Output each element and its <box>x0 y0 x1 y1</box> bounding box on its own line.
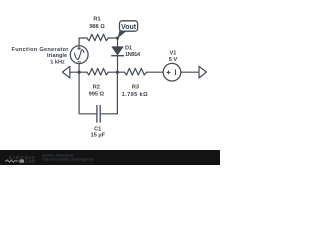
svg-text:15 µF: 15 µF <box>91 133 106 139</box>
diode D1 <box>111 47 124 56</box>
resistor R3 <box>124 68 146 75</box>
svg-text:triangle: triangle <box>47 53 67 59</box>
svg-text:D1: D1 <box>125 45 132 51</box>
function generator source <box>70 46 88 64</box>
junction node B <box>116 71 119 74</box>
wire C1 right plate up to node B <box>100 72 117 114</box>
svg-text:5 V: 5 V <box>169 57 178 63</box>
flag Vout <box>118 21 138 38</box>
junction node Vout <box>116 36 119 39</box>
wire function generator bottom to node A <box>78 63 80 72</box>
svg-text:V1: V1 <box>170 50 177 56</box>
capacitor C1 <box>97 105 100 123</box>
svg-text:Function Generator: Function Generator <box>11 47 69 53</box>
wire diode cathode to node B <box>117 56 119 72</box>
svg-text:LAB: LAB <box>25 159 35 164</box>
svg-text:R3: R3 <box>132 84 139 90</box>
wire function generator top to R1 <box>79 38 87 46</box>
svg-text:http://circuitlab.com/c/qpe7pv: http://circuitlab.com/c/qpe7pv <box>42 158 94 162</box>
wire node B to R3 <box>118 71 125 73</box>
svg-text:C1: C1 <box>94 126 101 132</box>
junction node A <box>78 71 81 74</box>
voltage source V1 <box>163 63 181 81</box>
svg-text:R1: R1 <box>93 17 100 23</box>
wire left terminal to R2 <box>70 71 87 73</box>
logo CircuitLab <box>5 155 36 164</box>
svg-text:1.795 kΩ: 1.795 kΩ <box>122 92 148 98</box>
watermark bar <box>0 150 220 165</box>
resistor R1 <box>87 34 108 41</box>
wire R3 to V1 <box>147 71 164 73</box>
wire V1 to right terminal <box>181 71 199 73</box>
terminal left <box>62 66 69 78</box>
svg-text:R2: R2 <box>93 84 100 90</box>
svg-text:1N914: 1N914 <box>125 52 141 58</box>
resistor R2 <box>87 68 108 75</box>
svg-text:995 Ω: 995 Ω <box>89 92 105 98</box>
svg-text:Vout: Vout <box>121 24 137 31</box>
wire node Vout to diode anode <box>117 38 119 47</box>
wire R1 to node Vout <box>108 37 117 39</box>
svg-text:1 kHz: 1 kHz <box>50 59 65 65</box>
wire node A down to C1 left plate <box>79 72 97 114</box>
wire R2 to node B <box>108 71 117 73</box>
terminal right <box>199 66 206 78</box>
svg-text:988 Ω: 988 Ω <box>89 24 105 30</box>
